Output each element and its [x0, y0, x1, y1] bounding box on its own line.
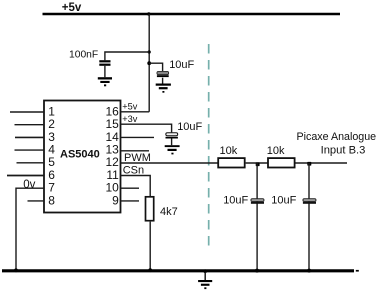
wire: 100nF to ground	[104, 66, 106, 77]
wire pin 6 (0v net)	[7, 175, 44, 177]
svg-text:10uF: 10uF	[177, 121, 202, 133]
0v rail	[2, 269, 354, 272]
svg-text:9: 9	[112, 193, 119, 207]
+5v rail	[43, 13, 341, 16]
wire: to 100nF	[105, 52, 149, 60]
wire pin 5	[17, 162, 45, 164]
svg-text:10k: 10k	[267, 145, 285, 157]
wire pin 1	[10, 111, 44, 113]
wire C3 to ground	[171, 139, 173, 146]
svg-text:8: 8	[48, 193, 55, 207]
node: R3 at 0v rail	[148, 268, 152, 272]
svg-text:AS5040: AS5040	[60, 149, 100, 161]
ground under 100nF	[98, 77, 112, 86]
node A junction	[256, 162, 260, 166]
capacitor C1 100nF plates	[99, 60, 110, 62]
capacitor C2 10uF plates (electrolytic)	[157, 71, 169, 74]
svg-text:+5v: +5v	[122, 101, 137, 111]
capacitor C4 10uF plates (electrolytic)	[251, 199, 264, 202]
wire pin 8	[28, 200, 45, 202]
wire node A down to 0v rail	[256, 163, 258, 271]
wire: branch to 10uF C2	[149, 63, 162, 71]
wire pin 2	[15, 124, 45, 126]
wire pin 16 to +5v	[121, 111, 150, 113]
wire R1 to node A	[246, 162, 268, 164]
node: 100nF junction	[148, 50, 151, 53]
wire: C2 to ground	[162, 78, 164, 84]
ground symbol on 0v rail	[198, 269, 212, 289]
wire R3 to 0v rail	[149, 222, 151, 271]
wire pin 4	[15, 149, 45, 151]
0v rail end mark	[356, 270, 359, 272]
wire pin 15 to C3	[121, 124, 172, 132]
ground under C2	[156, 84, 171, 93]
svg-text:0v: 0v	[23, 179, 35, 191]
wire: +5v rail down to pin 16	[148, 14, 150, 112]
svg-text:10k: 10k	[220, 145, 238, 157]
svg-text:+3v: +3v	[122, 114, 137, 124]
wire pin 10 stub	[121, 187, 140, 189]
svg-text:10uF: 10uF	[271, 194, 296, 206]
svg-text:4k7: 4k7	[160, 206, 178, 218]
svg-text:10uF: 10uF	[169, 59, 194, 71]
capacitor C3 10uF plates (electrolytic)	[166, 133, 178, 136]
wire pin 14 stub	[121, 136, 155, 138]
wire pin 11 to R3	[121, 176, 151, 197]
svg-text:10uF: 10uF	[223, 194, 248, 206]
resistor R1 10k body	[218, 158, 245, 167]
node: 10uF branch junction	[147, 61, 151, 65]
node: pin7 at 0v rail	[14, 268, 18, 272]
svg-text:100nF: 100nF	[69, 49, 98, 60]
svg-text:Picaxe Analogue: Picaxe Analogue	[297, 131, 377, 143]
wire node B down to 0v rail	[308, 163, 310, 271]
wire pin 12 to divider	[121, 162, 219, 164]
dashed analysis boundary line	[208, 44, 210, 252]
node: C5 at 0v rail	[307, 269, 311, 273]
wire R2 to output	[296, 162, 348, 164]
wire pin 13 stub (PWM)	[121, 150, 150, 152]
wire pin 7 to 0v rail	[16, 188, 44, 271]
wire pin 9 stub	[121, 200, 140, 202]
resistor R2 10k body	[268, 158, 295, 167]
svg-text:+5v: +5v	[62, 2, 82, 14]
node B junction	[307, 162, 311, 166]
wire pin 3	[15, 136, 44, 138]
IC U1 AS5040 body	[44, 101, 121, 213]
node: C4 at 0v rail	[255, 269, 259, 273]
ground under C3	[165, 145, 180, 154]
capacitor C5 10uF plates (electrolytic)	[303, 199, 316, 202]
node: +5v rail junction	[147, 12, 150, 15]
resistor R3 4k7 body	[146, 197, 154, 221]
svg-text:Input B.3: Input B.3	[321, 145, 366, 157]
